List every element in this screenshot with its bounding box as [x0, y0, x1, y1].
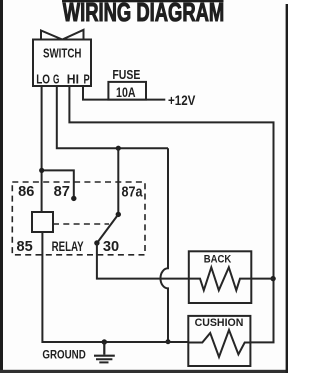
- wire HI terminal right bus down to CUSHION: [69, 86, 273, 342]
- svg-text:CUSHION: CUSHION: [195, 317, 244, 329]
- resistor CUSHION zigzag: [188, 330, 250, 357]
- relay armature arm 30 to 87a: [97, 214, 118, 243]
- wire G-net down to ground bus with hop over 30 wire: [160, 148, 168, 342]
- svg-text:SWITCH: SWITCH: [43, 47, 82, 61]
- frame right border: [286, 4, 288, 373]
- svg-text:HI: HI: [67, 73, 79, 87]
- wire BACK output to right bus: [251, 278, 273, 280]
- wire contact 30 down and right to BACK element: [97, 243, 189, 279]
- frame bottom border: [0, 370, 288, 373]
- resistor CUSHION heating element box: [188, 316, 250, 366]
- svg-text:WIRING DIAGRAM: WIRING DIAGRAM: [63, 0, 225, 27]
- svg-text:+12V: +12V: [168, 93, 195, 108]
- ground junction dot: [102, 339, 107, 344]
- ground symbol: [94, 342, 115, 362]
- svg-text:G: G: [53, 73, 60, 87]
- relay dashed enclosure: [12, 182, 145, 255]
- svg-text:GROUND: GROUND: [42, 348, 85, 361]
- wire branch from LO net to contact 87: [42, 170, 74, 196]
- contact 87 dot: [71, 196, 76, 201]
- wire G terminal to 87a net: [57, 86, 168, 148]
- wire P terminal through fuse to +12V: [83, 86, 165, 100]
- contact 30 dot: [94, 240, 99, 245]
- junction node LO/87: [39, 168, 44, 173]
- svg-text:RELAY: RELAY: [52, 239, 84, 255]
- switch S1 toggle bowtie symbol: [41, 30, 84, 40]
- title overline bar: [62, 0, 224, 2]
- svg-text:FUSE: FUSE: [112, 68, 140, 82]
- contact 87a dot: [116, 212, 121, 217]
- svg-text:10A: 10A: [116, 84, 136, 100]
- junction dot BACK output / right bus: [270, 276, 275, 281]
- frame left border: [0, 0, 3, 371]
- svg-text:LO: LO: [36, 73, 50, 87]
- resistor BACK heating element box: [189, 251, 252, 303]
- svg-text:87: 87: [54, 184, 70, 200]
- resistor BACK zigzag: [189, 267, 252, 290]
- relay mechanical linkage dashed: [53, 223, 109, 225]
- svg-text:86: 86: [18, 184, 34, 200]
- svg-text:BACK: BACK: [204, 254, 232, 266]
- junction dot G-net at ground bus: [166, 339, 171, 344]
- wire LO terminal down to relay coil 86: [41, 86, 43, 212]
- junction node G/87a: [116, 146, 121, 151]
- svg-text:85: 85: [16, 239, 32, 255]
- switch S1 box: [33, 40, 91, 87]
- wire relay coil 85 down to ground bus: [42, 232, 188, 342]
- svg-text:30: 30: [103, 239, 119, 255]
- wire 87a drop: [117, 148, 119, 212]
- svg-text:87a: 87a: [122, 185, 144, 201]
- fuse F1 box: [108, 82, 146, 100]
- svg-text:P: P: [84, 73, 90, 87]
- relay coil K1: [32, 212, 53, 232]
